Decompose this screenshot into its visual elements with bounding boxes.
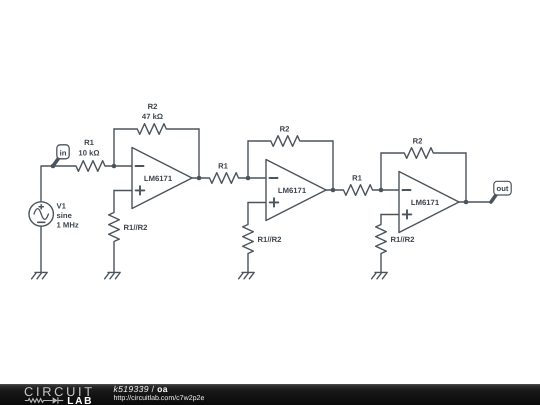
wire noninverting stage2 — [248, 202, 266, 204]
op-amp U1 minus — [136, 165, 144, 167]
wire noninverting stage1 — [114, 190, 132, 192]
wire output stage2 — [326, 189, 333, 191]
node inverting input stage3 — [379, 188, 384, 193]
op-amp U3 — [399, 172, 459, 233]
flag in box — [57, 145, 69, 159]
resistor R1 10k stage1 — [53, 161, 114, 172]
svg-text:sine: sine — [57, 211, 73, 220]
wire feedback right stage2 — [332, 141, 334, 190]
node inverting input stage1 — [112, 164, 117, 169]
wire inverting input stage1 — [114, 165, 132, 167]
svg-text:R1: R1 — [218, 162, 229, 171]
node output stage2 — [331, 188, 336, 193]
wire feedback left stage3 — [380, 153, 382, 190]
svg-text:R2: R2 — [148, 102, 158, 111]
op-amp U2 minus — [270, 177, 278, 179]
svg-text:R1: R1 — [352, 174, 363, 183]
ground stage1 — [105, 272, 121, 278]
flag out pointer — [491, 195, 496, 202]
svg-text:10 kΩ: 10 kΩ — [78, 148, 99, 157]
node output stage3 — [464, 200, 469, 205]
svg-text:k519339 / oa: k519339 / oa — [114, 384, 168, 394]
op-amp U1 plus — [136, 186, 145, 194]
op-amp U3 plus — [403, 210, 412, 218]
logo squiggle resistor and diode — [25, 397, 63, 404]
resistor R1//R2 stage2 — [243, 203, 254, 273]
label R1 10 kOhm — [78, 138, 99, 157]
svg-text:1 MHz: 1 MHz — [57, 220, 79, 229]
svg-text:R2: R2 — [280, 124, 290, 133]
resistor R2 47k stage1 — [114, 124, 199, 135]
svg-text:out: out — [497, 184, 509, 193]
source V1 plus — [39, 205, 43, 209]
footer bar — [0, 384, 540, 405]
op-amp U3 minus — [403, 189, 411, 191]
wire feedback left stage1 — [113, 129, 115, 166]
op-amp U2 plus — [270, 198, 279, 206]
svg-text:R1//R2: R1//R2 — [391, 235, 415, 244]
node inverting input stage2 — [246, 176, 251, 181]
wire to out flag — [466, 201, 491, 203]
source V1 sine — [34, 209, 48, 220]
label V1 sine 1 MHz — [57, 201, 79, 229]
source V1 circle — [29, 202, 53, 226]
wire feedback left stage2 — [247, 141, 249, 178]
svg-text:V1: V1 — [57, 201, 67, 210]
svg-text:http://circuitlab.com/c7w2p2e: http://circuitlab.com/c7w2p2e — [114, 394, 205, 402]
ground V1 — [32, 272, 48, 278]
resistor R1//R2 stage3 — [376, 215, 387, 273]
resistor R1//R2 stage1 — [109, 191, 120, 273]
node output stage1 — [197, 176, 202, 181]
wire noninverting stage3 — [381, 214, 399, 216]
svg-text:R1//R2: R1//R2 — [124, 223, 148, 232]
ground stage3 — [372, 272, 388, 278]
wire output stage3 — [459, 201, 466, 203]
svg-text:LM6171: LM6171 — [144, 174, 173, 183]
node in flag anchor — [51, 164, 56, 169]
wire feedback right stage1 — [198, 129, 200, 178]
wire inverting input stage3 — [381, 189, 399, 191]
svg-text:LAB: LAB — [67, 396, 93, 405]
flag in pointer — [53, 158, 59, 166]
ground stage2 — [239, 272, 255, 278]
wire output stage1 — [192, 177, 199, 179]
svg-text:LM6171: LM6171 — [411, 198, 440, 207]
op-amp U2 — [266, 160, 326, 221]
wire V1 to ground — [40, 226, 42, 272]
resistor R2 stage3 — [381, 148, 466, 159]
resistor R1 stage2 — [199, 173, 248, 184]
wire feedback right stage3 — [465, 153, 467, 202]
source V1 minus — [38, 221, 45, 223]
wire from V1 to input node — [41, 166, 53, 202]
svg-text:47 kΩ: 47 kΩ — [142, 112, 163, 121]
resistor R2 stage2 — [248, 136, 333, 147]
label R2 47 kOhm — [142, 102, 163, 121]
resistor R1 stage3 — [333, 185, 381, 196]
svg-text:R1: R1 — [84, 138, 95, 147]
flag out box — [494, 181, 511, 195]
svg-text:LM6171: LM6171 — [278, 186, 307, 195]
svg-text:R2: R2 — [413, 136, 423, 145]
op-amp U1 — [132, 148, 192, 209]
svg-text:R1//R2: R1//R2 — [258, 235, 282, 244]
svg-text:in: in — [60, 148, 67, 157]
wire inverting input stage2 — [248, 177, 266, 179]
